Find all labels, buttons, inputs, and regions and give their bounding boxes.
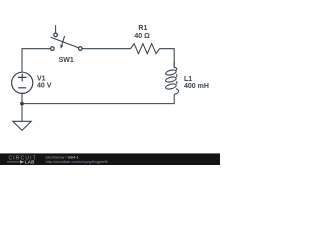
- svg-text:40 Ω: 40 Ω: [134, 33, 150, 40]
- V1 plus sign: [18, 74, 27, 81]
- wire: V1 bottom to ground: [21, 94, 23, 121]
- watermark bar: [0, 153, 220, 165]
- svg-text:L1: L1: [184, 76, 192, 83]
- resistor R1: [131, 44, 160, 54]
- switch SW1 right terminal: [79, 47, 83, 51]
- ground: [13, 121, 31, 130]
- svg-text:V1: V1: [37, 76, 46, 83]
- svg-text:40 V: 40 V: [37, 83, 52, 90]
- junction node: [20, 102, 24, 106]
- svg-text:http://circuitlab.com/c/xyzg4h: http://circuitlab.com/c/xyzg4hqgmr9t: [46, 159, 109, 164]
- inductor L1 coil: [165, 62, 178, 95]
- switch SW1 actuation arrow: [62, 36, 65, 45]
- switch SW1 top terminal: [54, 33, 58, 37]
- wire: inductor bottom to bottom rail to junction: [22, 95, 174, 104]
- wire: resistor to top-right corner down to inductor: [160, 49, 175, 68]
- wire: top-left corner from V1 up to switch left terminal: [22, 49, 51, 72]
- voltage source V1 circle: [12, 72, 33, 93]
- svg-text:400 mH: 400 mH: [184, 83, 209, 90]
- wire: stub above switch top throw: [55, 25, 57, 33]
- svg-text:R1: R1: [138, 25, 147, 32]
- svg-text:LAB: LAB: [25, 160, 36, 165]
- V1 minus sign: [18, 87, 26, 89]
- wire: switch right terminal to resistor: [82, 48, 130, 50]
- switch SW1 left terminal: [51, 47, 55, 51]
- switch SW1 blade: [51, 37, 79, 47]
- svg-text:SW1: SW1: [59, 57, 74, 64]
